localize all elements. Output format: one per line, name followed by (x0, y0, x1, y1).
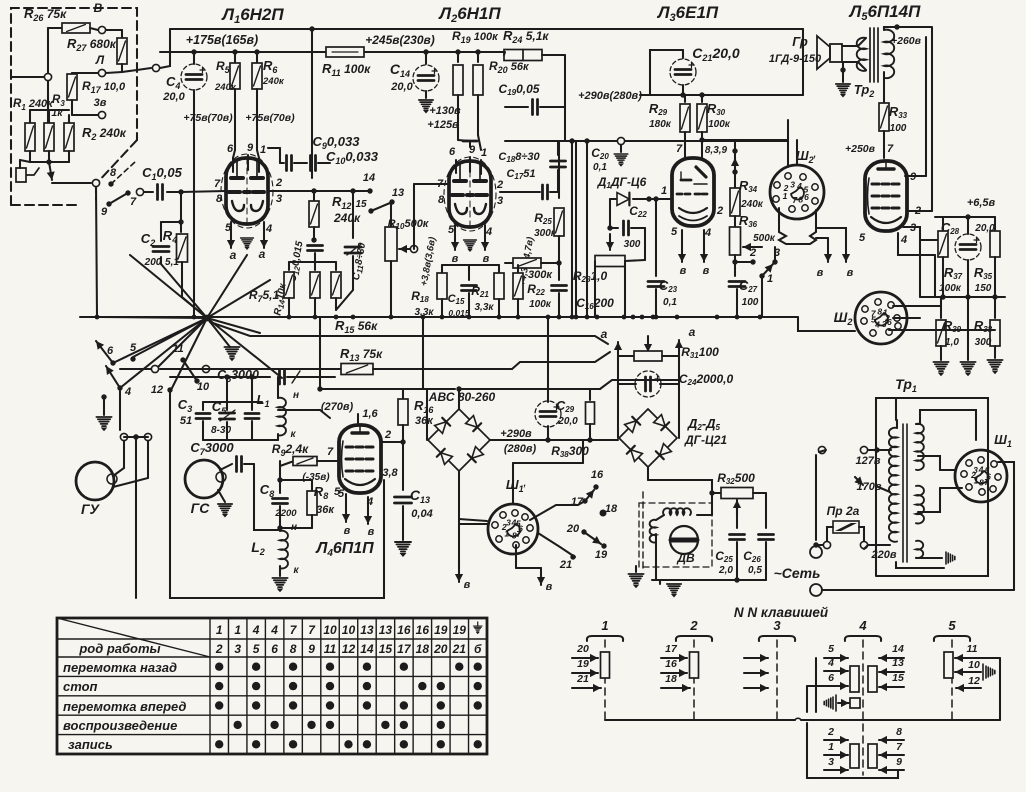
dashed link (111, 162, 135, 184)
svg-text:13: 13 (392, 187, 404, 199)
record head GS (185, 460, 223, 498)
svg-text:2: 2 (275, 177, 282, 189)
contact 5 (130, 356, 135, 361)
svg-text:10: 10 (342, 623, 356, 637)
svg-text:2: 2 (716, 205, 723, 217)
svg-text:С188÷30: С188÷30 (498, 151, 540, 164)
bus +245v (160, 51, 505, 53)
Sh1 wires (940, 469, 956, 471)
svg-text:7: 7 (887, 143, 894, 155)
svg-text:2: 2 (827, 726, 834, 738)
resistor R9 2.4k (280, 461, 294, 466)
svg-text:17: 17 (397, 642, 412, 656)
svg-text:36к: 36к (415, 415, 434, 427)
capacitor C24 2000 (617, 356, 619, 384)
capacitor C2 200 (180, 192, 182, 222)
svg-text:1: 1 (234, 623, 241, 637)
svg-text:18: 18 (665, 673, 677, 685)
mains bottom wire (822, 589, 1014, 591)
svg-text:21: 21 (576, 673, 589, 685)
svg-text:R20 56к: R20 56к (489, 59, 530, 75)
svg-text:R10500к: R10500к (388, 218, 430, 231)
capacitor C18 8-30 (557, 141, 559, 155)
capacitor C15 0.015 (468, 265, 470, 280)
svg-text:+6,5в: +6,5в (967, 197, 996, 209)
socket Sh2prime (770, 165, 824, 219)
svg-text:в: в (344, 525, 351, 537)
svg-text:240к: 240к (740, 199, 764, 210)
terminal L (98, 69, 105, 76)
svg-text:б: б (474, 642, 482, 656)
svg-text:+290в(280в): +290в(280в) (578, 90, 642, 102)
resistor R8 36k (311, 480, 313, 490)
svg-text:+75в(70в): +75в(70в) (245, 112, 295, 124)
svg-text:3: 3 (828, 756, 834, 768)
key 5 plug (986, 666, 995, 678)
contact circles pair (120, 433, 127, 440)
svg-text:5,1: 5,1 (165, 257, 179, 268)
svg-text:6: 6 (828, 672, 834, 684)
L4 pin2 (381, 441, 404, 443)
svg-text:100к: 100к (708, 119, 731, 130)
vertical x735 with R34 R36 (732, 148, 737, 153)
contact 6 (110, 360, 115, 365)
svg-text:+175в(165в): +175в(165в) (186, 33, 258, 47)
svg-text:1: 1 (661, 185, 667, 197)
L1 tap wire (278, 409, 320, 411)
socket Sh1prime (488, 504, 538, 554)
svg-text:8: 8 (216, 193, 223, 205)
svg-text:9: 9 (308, 642, 315, 656)
svg-text:С2120,0: С2120,0 (692, 45, 740, 63)
bridge to socket (459, 519, 487, 521)
svg-text:запись: запись (68, 737, 113, 752)
svg-text:R17 10,0: R17 10,0 (82, 79, 126, 95)
svg-text:13: 13 (379, 623, 393, 637)
svg-text:Л16Н2П: Л16Н2П (220, 5, 284, 26)
svg-text:36к: 36к (316, 504, 335, 516)
wires from L5 to right (919, 240, 921, 297)
capacitor C16 cap (558, 263, 560, 280)
resistor R5 240k (232, 49, 237, 54)
contact 19 (601, 543, 606, 548)
svg-text:4: 4 (270, 623, 278, 637)
L1 pin wires (232, 158, 234, 172)
dashed input selector box (11, 8, 137, 205)
svg-text:2: 2 (215, 642, 223, 656)
tube L5 6P14P (865, 161, 907, 231)
svg-text:19: 19 (453, 623, 467, 637)
contact 2 (750, 259, 755, 264)
svg-text:51: 51 (180, 415, 192, 427)
svg-text:100: 100 (890, 123, 907, 134)
svg-text:Л46П1П: Л46П1П (315, 540, 374, 559)
wire from box to bus (122, 70, 137, 72)
svg-text:в: в (368, 526, 375, 538)
svg-text:5: 5 (948, 618, 956, 633)
svg-text:в: в (483, 253, 490, 265)
GU wires (113, 441, 124, 476)
capacitor C13 0.04 (395, 497, 412, 503)
svg-text:5: 5 (334, 486, 341, 498)
svg-text:16: 16 (397, 623, 411, 637)
motor DV dashed box (639, 503, 712, 567)
svg-text:а: а (601, 327, 608, 341)
svg-text:21: 21 (559, 559, 572, 571)
svg-text:+125в: +125в (427, 119, 459, 131)
resistor R32 500 (712, 492, 722, 494)
svg-text:14: 14 (892, 643, 904, 655)
capacitor C17 51 (543, 185, 548, 199)
svg-text:200: 200 (144, 257, 162, 268)
svg-text:+290в: +290в (500, 428, 532, 440)
svg-text:19: 19 (434, 623, 448, 637)
junction wires to arrow (30, 109, 69, 111)
terminal V (98, 26, 105, 33)
svg-text:R24 5,1к: R24 5,1к (503, 28, 549, 45)
svg-text:21: 21 (452, 642, 467, 656)
ground mid bottom (635, 566, 637, 572)
svg-text:19: 19 (595, 549, 608, 561)
Tr2 wires (884, 27, 932, 30)
L5 right wires (905, 175, 926, 177)
Sh2' bottom comb (779, 208, 816, 244)
resistor R12 240k (313, 191, 315, 200)
motor wires (655, 534, 657, 580)
rail y140 right (702, 139, 788, 141)
svg-text:4: 4 (858, 618, 867, 633)
capacitor C28 20.0 (967, 217, 969, 234)
svg-text:Л36Е1П: Л36Е1П (656, 3, 719, 24)
resistor R27 680k (106, 29, 122, 31)
line y402 (203, 401, 262, 403)
svg-text:Пр 2а: Пр 2а (827, 504, 860, 518)
resistor R21 3.3k (498, 265, 500, 272)
svg-text:5: 5 (130, 342, 137, 354)
tap 220v (868, 544, 890, 546)
svg-text:(-35в): (-35в) (302, 472, 330, 483)
svg-text:12: 12 (968, 675, 980, 687)
svg-text:7: 7 (437, 178, 444, 190)
mains input (818, 446, 825, 453)
svg-text:(280в): (280в) (504, 443, 537, 455)
box around L4 (170, 392, 384, 598)
svg-text:ГУ: ГУ (81, 501, 101, 517)
motor gnd (659, 580, 661, 584)
svg-text:2200: 2200 (274, 508, 297, 519)
svg-text:В: В (94, 1, 103, 15)
svg-text:20: 20 (433, 642, 448, 656)
main bus y318 (80, 316, 798, 318)
svg-text:3: 3 (506, 518, 511, 528)
tube L4 6P1P (339, 425, 381, 493)
svg-text:1: 1 (601, 618, 608, 633)
wire L1 grid left (181, 191, 226, 192)
tap 127v (860, 446, 867, 453)
svg-text:ДГ-Ц21: ДГ-Ц21 (684, 433, 727, 447)
svg-text:3: 3 (276, 193, 282, 205)
svg-text:N N клавишей: N N клавишей (734, 605, 829, 620)
key 4 bottom boxes (850, 744, 859, 768)
svg-text:100к: 100к (529, 299, 552, 310)
L1 cathode arrows (227, 222, 235, 248)
capacitor C26 0.5 (765, 493, 767, 528)
svg-text:Д2-Д5: Д2-Д5 (687, 416, 721, 432)
svg-text:+245в(230в): +245в(230в) (365, 33, 435, 47)
L2 grid cap (469, 141, 471, 147)
svg-text:4: 4 (796, 181, 802, 191)
svg-text:1: 1 (767, 273, 773, 285)
svg-text:0,5: 0,5 (748, 565, 762, 576)
capacitor C12 0.015 (308, 246, 323, 251)
svg-text:8: 8 (896, 726, 902, 738)
L3 cathode arrows (678, 230, 686, 262)
svg-text:перемотка вперед: перемотка вперед (63, 699, 186, 714)
svg-text:воспроизведение: воспроизведение (63, 718, 177, 733)
GS ground (218, 490, 225, 502)
Sh1' top wire (512, 463, 514, 504)
svg-text:+130в: +130в (429, 105, 461, 117)
svg-text:R281,0: R281,0 (573, 269, 608, 284)
svg-text:20: 20 (566, 523, 580, 535)
wire 1 down (761, 276, 763, 317)
svg-text:10: 10 (968, 659, 980, 671)
resistor R18 3.3k (441, 265, 443, 272)
svg-text:5: 5 (871, 314, 876, 324)
svg-text:150: 150 (975, 283, 992, 294)
tube L1 6N2P (221, 154, 273, 228)
capacitor C5 8-30 (226, 377, 228, 402)
svg-text:0,015: 0,015 (448, 308, 470, 318)
svg-text:в: в (703, 265, 710, 277)
svg-text:в: в (452, 253, 459, 265)
svg-text:20: 20 (576, 643, 589, 655)
svg-text:300к: 300к (528, 269, 553, 281)
capacitor aux (249, 374, 254, 379)
svg-text:240к: 240к (214, 82, 237, 93)
svg-text:15: 15 (892, 672, 904, 684)
Sh2' top wires (787, 141, 789, 167)
svg-text:8: 8 (798, 195, 803, 205)
svg-text:16: 16 (665, 658, 677, 670)
svg-text:20,0: 20,0 (162, 91, 185, 103)
capacitor C27 100 (734, 262, 736, 276)
svg-text:Гр: Гр (792, 34, 808, 49)
Sh1 right wires (998, 462, 1014, 480)
svg-text:6: 6 (227, 143, 234, 155)
svg-text:300: 300 (624, 239, 641, 250)
erase head GU (76, 462, 114, 500)
resistor R28 1.0 (606, 234, 614, 250)
ground left sw (103, 397, 105, 415)
contact 10 (194, 378, 199, 383)
resistor R25 (558, 141, 560, 198)
contact 1 (759, 273, 764, 278)
svg-text:(270в): (270в) (321, 401, 354, 413)
vertical feed x312 (311, 29, 313, 178)
wire contact8 down (96, 187, 97, 317)
rail +290v (640, 94, 803, 96)
svg-text:19: 19 (577, 658, 589, 670)
contact 7 (125, 190, 130, 195)
L5 pin4 wire (898, 233, 935, 255)
svg-text:R13 75к: R13 75к (340, 346, 383, 363)
svg-text:R11 100к: R11 100к (322, 61, 371, 78)
svg-text:4: 4 (978, 465, 984, 475)
contact 3 (772, 259, 777, 264)
bridge D2-D5 (617, 384, 619, 438)
Tr1 bottom inner (896, 562, 944, 568)
svg-text:12: 12 (151, 384, 163, 396)
resistor R38 300 (994, 297, 996, 318)
svg-text:17: 17 (571, 496, 584, 508)
svg-text:R15 56к: R15 56к (335, 318, 378, 335)
contact 11 (180, 357, 185, 362)
svg-text:2,0: 2,0 (718, 565, 733, 576)
capacitor C10 0.033 (311, 156, 316, 171)
svg-text:С10,05: С10,05 (142, 165, 182, 182)
capacitor C23 0.1 (655, 199, 657, 276)
wire to contact 8 (52, 182, 91, 184)
wire sh2 right (787, 120, 789, 141)
svg-text:стоп: стоп (63, 679, 98, 694)
wire x136 down (135, 460, 137, 598)
svg-text:ДВ: ДВ (676, 551, 695, 565)
switch arrows (96, 341, 113, 363)
key 4 plug symbol (824, 697, 833, 709)
svg-text:14: 14 (360, 642, 374, 656)
svg-text:в: в (817, 267, 824, 279)
svg-text:в: в (464, 579, 471, 591)
svg-text:2: 2 (749, 247, 756, 259)
svg-text:6: 6 (271, 642, 278, 656)
wires to Sh2 (798, 317, 855, 331)
Tr1 inner top (895, 398, 897, 420)
key 4 left wire (815, 658, 817, 712)
contact 12 (167, 387, 172, 392)
Tr1 sec bottom (916, 486, 924, 524)
svg-text:7: 7 (130, 196, 137, 208)
svg-text:АВС 80-260: АВС 80-260 (428, 390, 496, 404)
ground near star (224, 347, 239, 361)
svg-text:R19 100к: R19 100к (452, 29, 499, 45)
capacitor C25 2.0 (736, 505, 738, 528)
svg-text:18: 18 (416, 642, 430, 656)
capacitor C19 0.05 (505, 106, 528, 108)
resistor R23 300k (505, 262, 512, 264)
resistor R38b 300 (589, 389, 591, 400)
svg-text:100к: 100к (939, 283, 962, 294)
vertical x423 (422, 317, 424, 389)
svg-text:500к: 500к (753, 233, 776, 244)
rail R13 (160, 368, 341, 370)
L5 pin3 wire (903, 227, 940, 240)
svg-text:а: а (230, 248, 237, 262)
svg-text:1: 1 (783, 191, 788, 201)
svg-text:R27 680к: R27 680к (67, 36, 117, 53)
resistor R24 5.1k (504, 50, 542, 61)
svg-text:ГС: ГС (191, 500, 211, 516)
svg-text:127в: 127в (856, 455, 881, 467)
svg-text:С242000,0: С242000,0 (679, 372, 734, 387)
svg-text:R32500: R32500 (717, 471, 755, 486)
L3 pin1 wire (651, 198, 672, 200)
svg-text:1: 1 (974, 476, 979, 486)
star node rays (161, 264, 207, 318)
svg-text:R2 240к: R2 240к (82, 125, 127, 142)
contact 15 (368, 208, 373, 213)
svg-text:R26 75к: R26 75к (24, 6, 67, 23)
rail y141 (505, 140, 788, 142)
wire R20 (477, 120, 479, 135)
bus +260v top (170, 28, 803, 30)
svg-text:3,3к: 3,3к (415, 307, 435, 318)
svg-text:13: 13 (360, 623, 374, 637)
svg-text:6: 6 (887, 317, 892, 327)
contact 20 (581, 529, 586, 534)
resistor R10 500k (390, 202, 392, 226)
resistor right (335, 262, 337, 270)
svg-text:1: 1 (481, 147, 487, 159)
ground under L1 (241, 238, 254, 250)
svg-text:а: а (259, 247, 266, 261)
svg-text:8: 8 (438, 194, 445, 206)
contact 18 (600, 510, 607, 517)
Tr1 small coil (916, 541, 923, 558)
svg-text:~Сеть: ~Сеть (774, 565, 821, 581)
resistor R17 10,0 (47, 28, 49, 130)
svg-text:1: 1 (504, 528, 509, 538)
svg-text:18: 18 (605, 503, 618, 515)
wire R10 wiper to L2 grid (413, 184, 415, 249)
svg-text:11: 11 (172, 343, 183, 355)
resistor R35 150 (994, 217, 996, 230)
svg-text:Л56П14П: Л56П14П (848, 2, 921, 23)
tube L2 6N1P (444, 157, 496, 231)
dashed key line mid (642, 492, 644, 570)
L4 top feed (357, 414, 359, 425)
svg-text:9: 9 (896, 756, 902, 768)
Tr1 outer box (876, 398, 988, 576)
Tr1 sec top (916, 424, 924, 470)
svg-text:в: в (680, 265, 687, 277)
coil L1 (277, 377, 279, 398)
svg-text:R92,4к: R92,4к (272, 442, 309, 458)
tap 170v (876, 486, 890, 492)
capacitor C22 300 (609, 199, 611, 228)
vertical to bridge (426, 389, 428, 440)
resistor R29 180k (684, 95, 686, 102)
resistor R37 100k (942, 217, 944, 230)
Sh2' arrow down (816, 237, 828, 239)
svg-text:1: 1 (828, 741, 834, 753)
svg-text:5: 5 (828, 643, 834, 655)
svg-text:С100,033: С100,033 (326, 149, 379, 166)
svg-text:15: 15 (355, 199, 367, 210)
svg-text:перемотка назад: перемотка назад (63, 660, 177, 675)
svg-text:а: а (689, 325, 696, 339)
resistor R30 100k (699, 92, 704, 97)
resistor R14 10k (288, 262, 290, 270)
mode table (57, 618, 487, 754)
capacitor C9 0.033 (280, 162, 284, 164)
bridge top wire (458, 389, 460, 409)
svg-text:9: 9 (101, 206, 108, 218)
svg-text:С190,05: С190,05 (499, 82, 540, 97)
contact 14 (367, 188, 372, 193)
svg-text:10: 10 (197, 381, 210, 393)
svg-text:С73000: С73000 (190, 440, 234, 457)
